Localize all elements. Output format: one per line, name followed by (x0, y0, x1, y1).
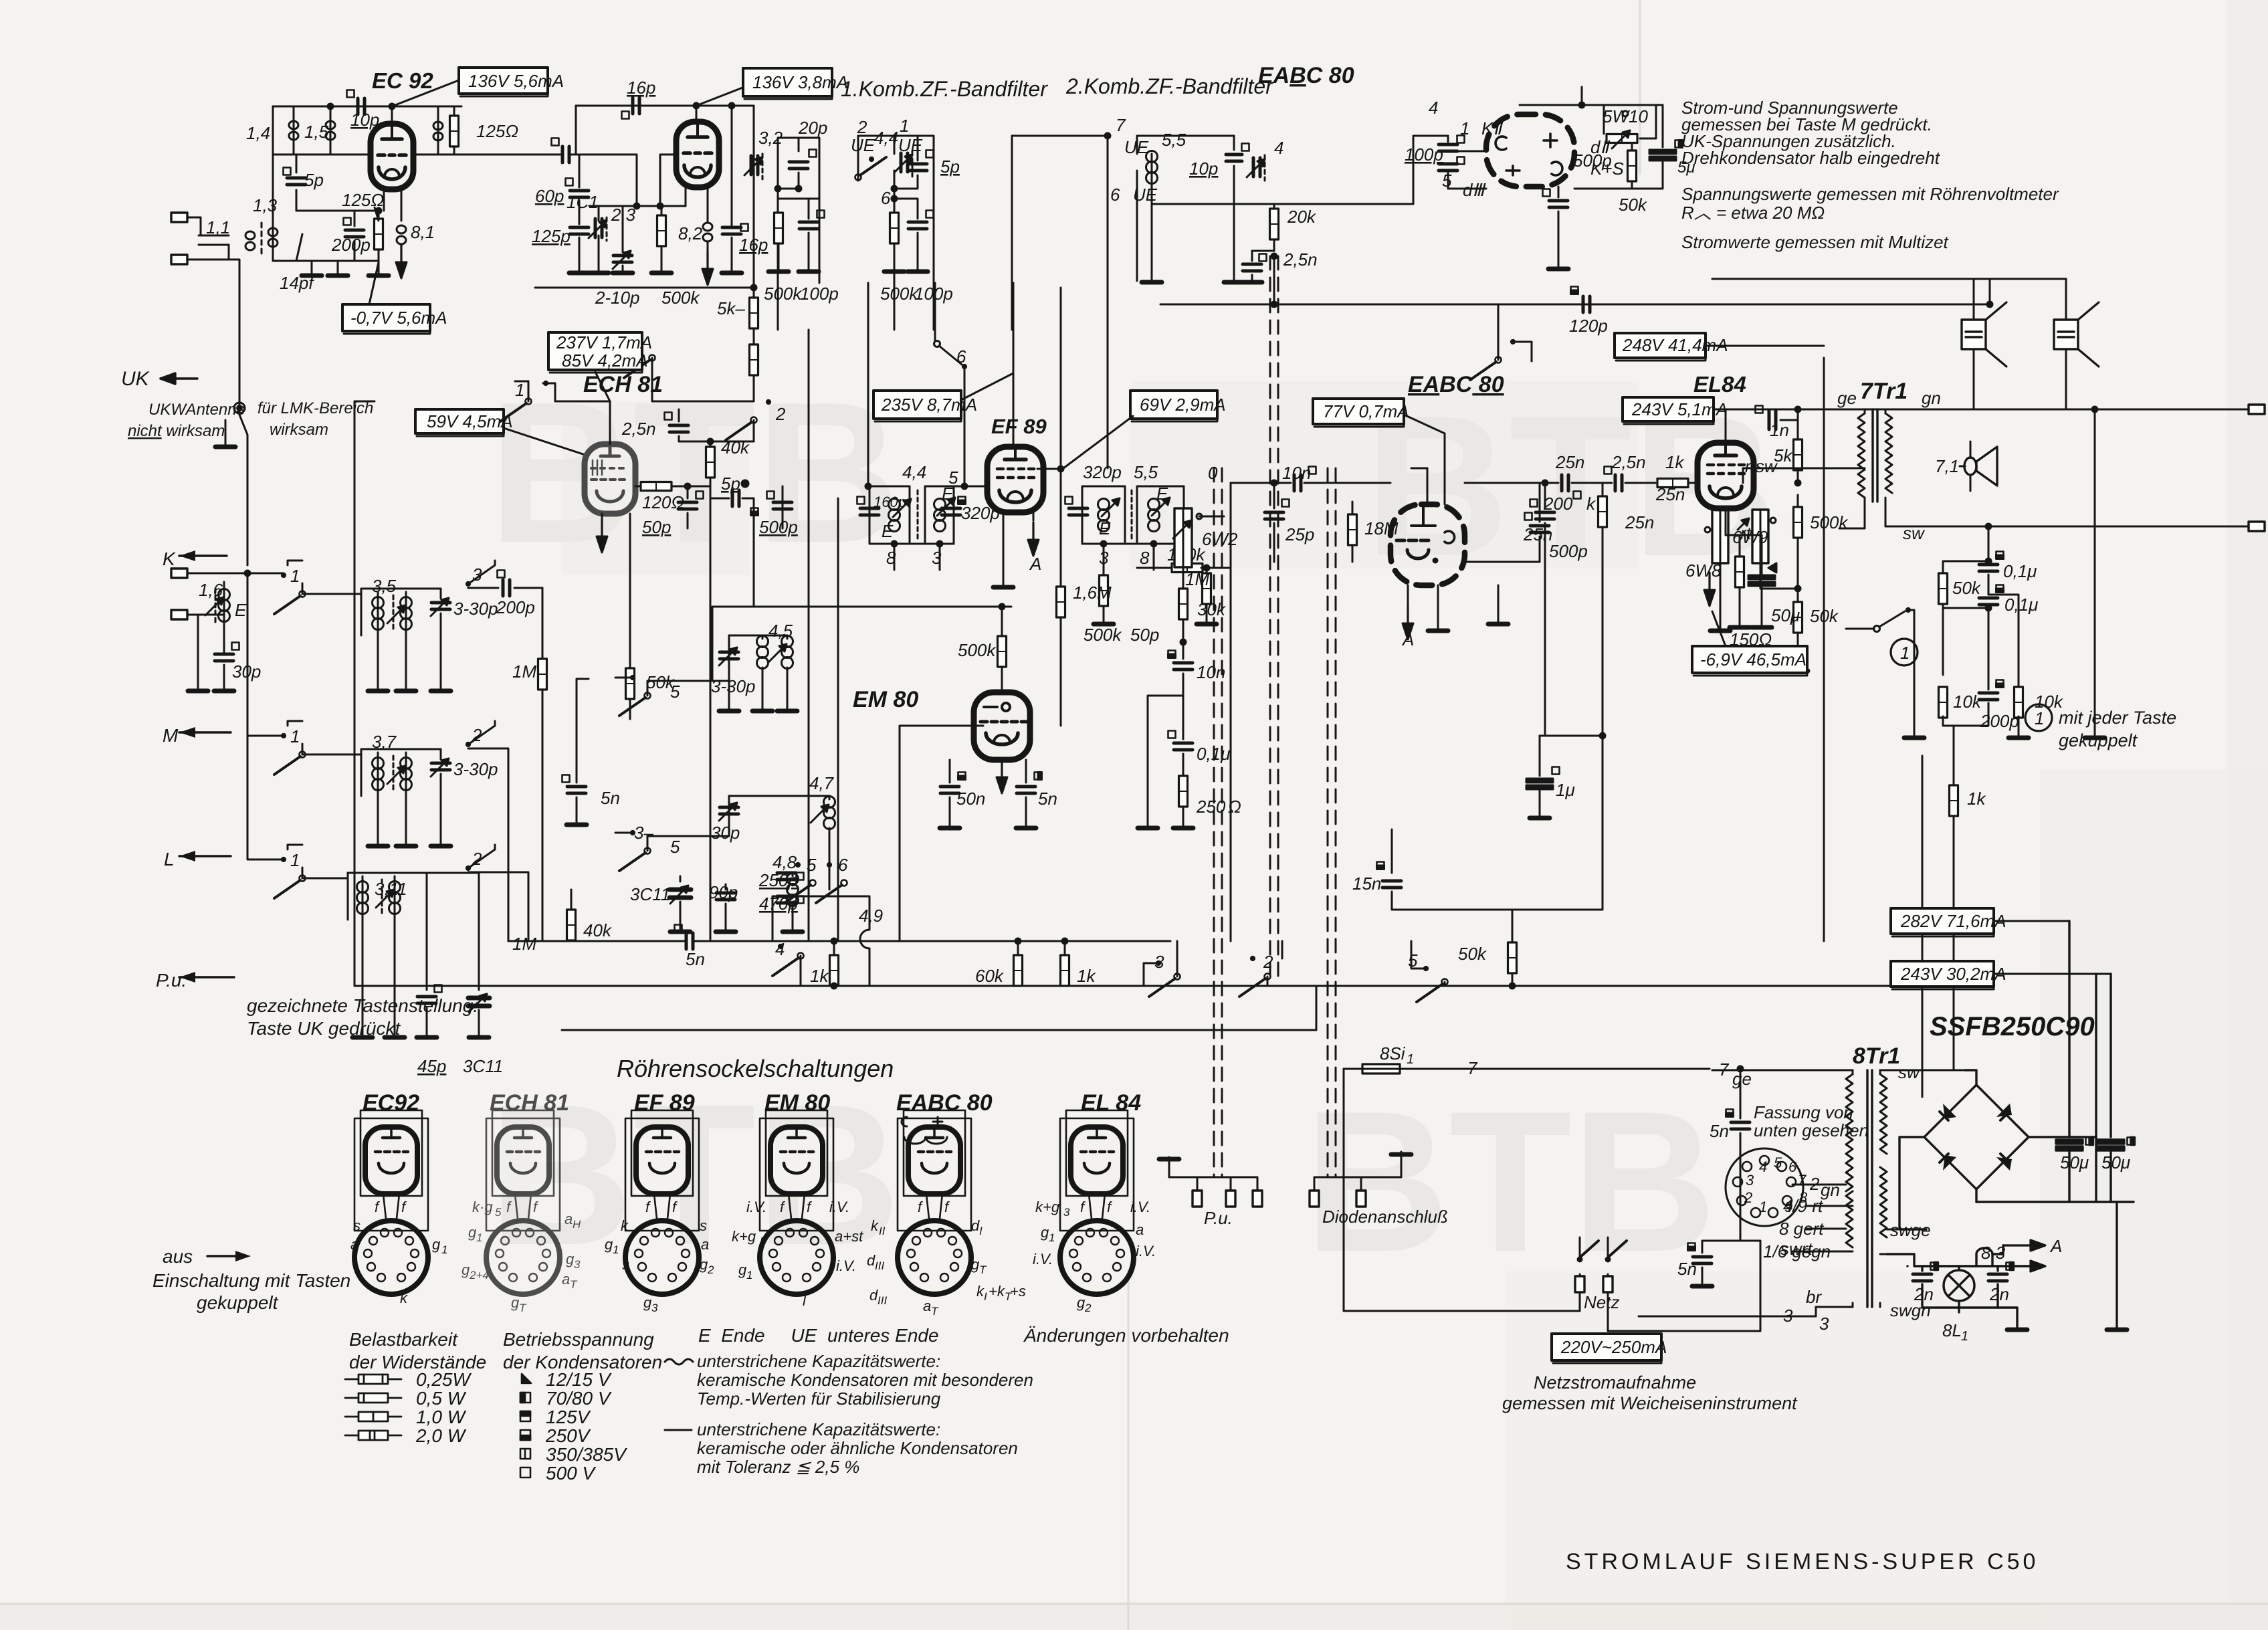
svg-text:H: H (573, 1218, 581, 1231)
svg-text:1: 1 (2035, 708, 2044, 728)
svg-text:II: II (879, 1225, 886, 1237)
svg-text:A: A (1029, 554, 1041, 574)
svg-text:10p: 10p (1189, 159, 1218, 179)
svg-text:50k: 50k (1458, 944, 1487, 964)
svg-text:br: br (1806, 1287, 1822, 1307)
svg-text:16p: 16p (627, 78, 655, 98)
svg-text:125V: 125V (546, 1407, 591, 1427)
svg-text:50p: 50p (1130, 625, 1159, 645)
svg-text:EC92: EC92 (363, 1090, 419, 1116)
svg-text:25n: 25n (1655, 484, 1685, 504)
svg-text:4,9: 4,9 (859, 906, 883, 926)
svg-text:50μ: 50μ (2101, 1152, 2130, 1173)
cathode ground (1437, 585, 1439, 629)
svg-text:1: 1 (746, 1269, 752, 1282)
svg-text:ge: ge (1732, 1069, 1752, 1089)
svg-text:UKWAntenne: UKWAntenne (148, 401, 245, 419)
svg-text:3: 3 (932, 548, 942, 568)
svg-text:a: a (1136, 1221, 1144, 1238)
svg-text:s: s (622, 1256, 629, 1273)
svg-text:1k: 1k (1077, 966, 1096, 986)
svg-text:1: 1 (1900, 643, 1910, 663)
pin leads 3 and 8 sec (1104, 544, 1154, 570)
resistor 5k no.1 (750, 288, 758, 346)
switch 3 contact and 200p (466, 561, 542, 596)
speaker 7,1 (1960, 441, 1997, 491)
grid leak 50k (626, 514, 635, 719)
svg-text:E: E (235, 600, 247, 620)
anode lead tube2 (696, 106, 698, 121)
vertical to 5k chain (753, 106, 755, 288)
resistor 40k lower (567, 890, 576, 941)
svg-text:5p: 5p (304, 170, 324, 190)
anode arrow EABC (1403, 606, 1413, 639)
svg-text:500k: 500k (958, 640, 997, 660)
capacitor 5p (284, 155, 306, 211)
svg-text:10p: 10p (350, 110, 379, 130)
svg-text:P.u.: P.u. (1204, 1208, 1233, 1228)
svg-text:0,25W: 0,25W (416, 1369, 472, 1390)
svg-text:rtsw: rtsw (1745, 456, 1778, 476)
svg-text:Einschaltung mit Tasten: Einschaltung mit Tasten (152, 1270, 350, 1291)
box 235V 8,7mA (873, 391, 977, 421)
shielded pair to P.u. (1214, 468, 1222, 1177)
svg-text:125p: 125p (532, 226, 571, 246)
svg-text:5: 5 (495, 1206, 502, 1219)
box 59V 4,5mA (415, 409, 513, 436)
svg-text:1: 1 (1407, 1052, 1414, 1067)
cap 45p (348, 873, 442, 1035)
svg-text:3,7: 3,7 (372, 732, 397, 752)
svg-text:1k: 1k (1967, 789, 1986, 809)
svg-text:1n: 1n (1770, 420, 1789, 440)
svg-text:50k: 50k (1619, 195, 1648, 215)
svg-text:6: 6 (1110, 185, 1120, 205)
svg-text:8: 8 (886, 548, 896, 568)
svg-text:gezeichnete Tastenstellung:: gezeichnete Tastenstellung: (247, 995, 478, 1016)
wire 200p link (418, 154, 560, 156)
cap 16p shunt (722, 106, 748, 273)
pot 6W9 6W8 (1705, 510, 1798, 631)
cap 320p sec (1065, 497, 1088, 516)
svg-text:3-30p: 3-30p (711, 676, 756, 696)
svg-text:20k: 20k (1287, 207, 1317, 227)
svg-text:5: 5 (1442, 171, 1452, 191)
potentiometer 6W2 (1173, 508, 1224, 582)
transformer 1,1 (199, 217, 262, 260)
svg-text:BTB: BTB (1304, 1069, 1717, 1294)
resistor 20k (1270, 204, 1279, 251)
cluster 4,7 (615, 796, 835, 890)
svg-text:77V 0,7mA: 77V 0,7mA (1323, 401, 1409, 421)
resistor 1k right (1061, 938, 1069, 986)
capacitor 200p series (552, 138, 570, 163)
svg-text:Netzstromaufnahme: Netzstromaufnahme (1534, 1372, 1696, 1393)
leader lines from boxes (504, 372, 610, 462)
svg-text:250: 250 (1196, 797, 1226, 817)
svg-text:-0,7V 5,6mA: -0,7V 5,6mA (350, 308, 447, 328)
svg-text:3–: 3– (634, 823, 653, 843)
circled 1 note (2025, 704, 2176, 750)
Diodenanschluss terminal row (1310, 1152, 1411, 1207)
svg-text:50n: 50n (956, 789, 985, 809)
svg-text:20p: 20p (798, 118, 827, 138)
svg-text:70/80 V: 70/80 V (546, 1388, 612, 1409)
svg-text:2.Komb.ZF.-Bandfilter: 2.Komb.ZF.-Bandfilter (1065, 74, 1273, 98)
svg-text:unten gesehen: unten gesehen (1754, 1120, 1869, 1140)
svg-text:320p: 320p (961, 503, 1000, 523)
grid wire (954, 486, 994, 488)
svg-text:7: 7 (1719, 1059, 1730, 1080)
cap 30p (214, 643, 239, 692)
svg-text:ECH 81: ECH 81 (490, 1090, 569, 1116)
switch 1 M band (247, 573, 306, 775)
fuse 8Si1 (1344, 1064, 1710, 1074)
shielded pair to Dioden (1328, 468, 1336, 1177)
ground left of 250 (1148, 696, 1183, 826)
wire anode (391, 106, 393, 124)
svg-text:200p: 200p (1980, 711, 2019, 731)
top right rail (1716, 409, 2261, 411)
resistor 125 ohm cathode (375, 208, 383, 261)
svg-text:25p: 25p (1285, 524, 1314, 544)
Fassung (1754, 1102, 1869, 1140)
box 220V~250mA (1552, 1334, 1667, 1363)
svg-text:5k–: 5k– (717, 298, 745, 318)
gezeichnete Tastenstellung (247, 995, 478, 1039)
grid right to g2 node (1037, 468, 1061, 470)
svg-text:3: 3 (1154, 952, 1164, 972)
svg-text:1M: 1M (1185, 569, 1209, 589)
svg-text:8,2: 8,2 (678, 223, 703, 243)
svg-text:136V 3,8mA: 136V 3,8mA (752, 72, 848, 92)
svg-text:0,1μ: 0,1μ (2003, 561, 2037, 581)
grid chain 25n 2,5n 1k (1465, 482, 1558, 484)
cap 10n series (1231, 467, 1390, 942)
UKW antenna labels (128, 399, 373, 440)
svg-text:unterstrichene Kapazitätswerte: unterstrichene Kapazitätswerte: (697, 1351, 940, 1371)
filter box 1 (768, 138, 825, 330)
svg-text:5: 5 (1774, 1154, 1782, 1171)
anode bus EC92 no.1 (273, 106, 461, 108)
svg-text:gekuppelt: gekuppelt (2059, 730, 2138, 750)
svg-text:8,3: 8,3 (1981, 1243, 2006, 1263)
svg-text:5n: 5n (1710, 1121, 1729, 1141)
svg-text:aus: aus (163, 1246, 193, 1267)
svg-text:7: 7 (1798, 1172, 1807, 1189)
svg-text:6: 6 (956, 346, 966, 367)
resistor 120ohm (635, 482, 710, 491)
svg-text:10k: 10k (1953, 692, 1982, 712)
svg-text:k+g: k+g (732, 1228, 756, 1245)
svg-text:100p: 100p (800, 284, 839, 304)
svg-text:50k: 50k (1952, 578, 1982, 598)
resistor 30k (1179, 582, 1188, 645)
resistor load legend (345, 1374, 401, 1440)
trimmer pair 3,2 (744, 154, 762, 179)
svg-text:R︿ = etwa 20 MΩ: R︿ = etwa 20 MΩ (1681, 203, 1825, 223)
svg-text:7: 7 (1467, 1058, 1478, 1078)
svg-text:3: 3 (1819, 1314, 1829, 1334)
resistor 50k (1574, 144, 1637, 189)
EM80 leads (900, 726, 983, 941)
svg-text:2-10p: 2-10p (595, 288, 640, 308)
svg-text:1.Komb.ZF.-Bandfilter: 1.Komb.ZF.-Bandfilter (841, 77, 1048, 101)
svg-text:I: I (984, 1290, 987, 1303)
svg-text:8: 8 (1799, 1189, 1808, 1206)
cap 1n (1756, 406, 1801, 430)
svg-text:5n: 5n (1677, 1259, 1697, 1279)
svg-text:M: M (163, 725, 179, 746)
ground stub antenna (215, 420, 235, 447)
svg-text:i.V.: i.V. (1033, 1251, 1053, 1267)
switch 3 low (1144, 941, 1180, 997)
svg-text:2,5n: 2,5n (621, 419, 656, 439)
svg-text:136V 5,6mA: 136V 5,6mA (468, 71, 564, 91)
svg-text:8Si: 8Si (1380, 1043, 1406, 1063)
svg-text:a: a (701, 1236, 709, 1253)
svg-text:6W2: 6W2 (1202, 529, 1238, 549)
svg-text:5,5: 5,5 (1162, 130, 1187, 150)
tube ECH81 (585, 444, 635, 514)
svg-text:T: T (979, 1263, 987, 1276)
svg-text:3-30p: 3-30p (453, 599, 498, 619)
svg-text:4,5: 4,5 (768, 621, 793, 641)
svg-text:nicht wirksam: nicht wirksam (128, 422, 225, 440)
svg-text:4: 4 (775, 939, 785, 959)
svg-text:gn: gn (1821, 1180, 1840, 1200)
arrow down cathode (396, 245, 407, 278)
box -0,7V 5,6mA (342, 304, 447, 334)
switch 1 K band (247, 561, 306, 614)
svg-text:T: T (570, 1278, 578, 1291)
svg-text:s: s (353, 1217, 360, 1234)
cathode lead (685, 188, 687, 206)
electrolytic 50u no.1 (2056, 1138, 2093, 1203)
svg-text:5p: 5p (940, 157, 960, 177)
svg-text:500k: 500k (661, 288, 700, 308)
svg-text:50μ: 50μ (2060, 1152, 2089, 1173)
svg-text:1: 1 (290, 850, 300, 870)
B+ top bus (1520, 87, 1663, 105)
svg-text:EL84: EL84 (1693, 372, 1746, 397)
RC network right (1979, 524, 2004, 716)
grid bus (273, 154, 461, 156)
tube EABC80 dashed (1486, 114, 1574, 187)
svg-text:3: 3 (472, 565, 482, 585)
svg-text:T: T (519, 1302, 527, 1314)
svg-text:320p: 320p (1083, 462, 1122, 482)
svg-text:T: T (931, 1305, 939, 1318)
svg-text:i.V.: i.V. (1130, 1199, 1150, 1215)
filter box 2 (884, 136, 934, 330)
svg-text:40k: 40k (721, 437, 750, 457)
netz plugs (1575, 1237, 1627, 1292)
trimmer 2-10p (613, 206, 633, 273)
svg-text:500k: 500k (764, 284, 803, 304)
svg-text:3C11: 3C11 (630, 884, 670, 904)
bottom right rail (1885, 526, 2261, 528)
svg-text:125Ω: 125Ω (342, 190, 384, 210)
svg-text:235V 8,7mA: 235V 8,7mA (881, 395, 977, 415)
svg-text:3,5: 3,5 (372, 576, 397, 596)
svg-text:1: 1 (290, 566, 300, 586)
svg-text:0,5 W: 0,5 W (416, 1388, 467, 1409)
svg-text:Temp.-Werten für Stabilisierun: Temp.-Werten für Stabilisierung (697, 1389, 941, 1409)
switch 2 contact L (466, 845, 528, 941)
svg-text:EF 89: EF 89 (991, 415, 1047, 438)
svg-text:keramische oder ähnliche Konde: keramische oder ähnliche Kondensatoren (697, 1438, 1018, 1458)
switch 4 coil 4,9 (772, 896, 869, 986)
svg-text:4,4: 4,4 (874, 128, 898, 148)
svg-text:K: K (163, 548, 176, 569)
svg-text:a+st: a+st (835, 1228, 863, 1245)
transformer taps (1639, 1070, 1853, 1316)
switch 1 L band (247, 736, 306, 898)
svg-text:200p: 200p (331, 235, 371, 255)
antenna jack terminals (171, 213, 231, 264)
wire filter drop lines (809, 330, 838, 941)
bus 1540 (562, 1029, 1316, 1031)
svg-text:4,7: 4,7 (809, 773, 835, 793)
svg-text:2+4: 2+4 (469, 1269, 489, 1282)
svg-text:4: 4 (1274, 138, 1283, 158)
bus 1407 (508, 940, 1170, 942)
socket EL84 (1033, 1090, 1156, 1314)
box 69V 2,9mA (1130, 391, 1226, 421)
grid feed wires (1427, 433, 1445, 504)
svg-text:8: 8 (1140, 548, 1150, 568)
svg-text:a: a (562, 1271, 570, 1288)
svg-text:EM 80: EM 80 (764, 1090, 830, 1116)
svg-text:0,1μ: 0,1μ (2004, 595, 2038, 615)
svg-text:12/15 V: 12/15 V (546, 1369, 612, 1390)
svg-text:7: 7 (1116, 115, 1126, 135)
electrolytic 50u (1748, 535, 1776, 627)
svg-text:25n: 25n (1555, 452, 1584, 472)
svg-text:2: 2 (1744, 1189, 1752, 1206)
svg-text:3: 3 (1783, 1306, 1793, 1326)
coil 5,5 (1146, 151, 1158, 282)
svg-text:125Ω: 125Ω (476, 121, 518, 141)
svg-text:UK: UK (121, 368, 150, 390)
grid lead (660, 155, 676, 206)
cap 5n lower (1688, 1164, 1761, 1286)
tube EABC80 dashed (1390, 504, 1465, 585)
bridge rectifier SSFB250C90 (1887, 921, 2135, 1330)
svg-text:gemessen mit Weicheiseninstrum: gemessen mit Weicheiseninstrument (1502, 1393, 1798, 1413)
box 243V 30,2mA (1891, 961, 2006, 989)
cluster 4,5 (615, 635, 797, 716)
svg-text:1,5: 1,5 (304, 122, 329, 142)
capacitor voltage legend (520, 1374, 531, 1478)
resistor 125 ohm (450, 106, 459, 155)
K terminals (171, 569, 187, 578)
svg-text:UE: UE (1133, 185, 1158, 205)
resistor 1,6M (1057, 469, 1065, 726)
svg-text:2,5n: 2,5n (1611, 452, 1646, 472)
caps 100p pair (1439, 136, 1486, 189)
diagonal leader to 136V box (392, 80, 459, 106)
coil 8,1 (397, 189, 406, 258)
wire KII to tube (1448, 150, 1486, 152)
svg-text:Drehkondensator halb eingedreh: Drehkondensator halb eingedreht (1681, 148, 1941, 168)
coil 1,3 on frame (268, 155, 278, 261)
svg-text:120Ω: 120Ω (642, 492, 684, 512)
box 282V 71,6mA (1891, 908, 2006, 936)
svg-text:3: 3 (1099, 548, 1109, 568)
L terminal arrow (179, 851, 231, 861)
mid bus (712, 607, 1011, 681)
frame bottom wire (273, 260, 379, 262)
svg-text:L: L (164, 849, 175, 870)
svg-text:EF 89: EF 89 (634, 1090, 695, 1116)
svg-text:1: 1 (1759, 1199, 1767, 1215)
svg-text:3: 3 (574, 1258, 581, 1271)
resistor 50k right (1788, 589, 1808, 671)
node row wire (296, 210, 379, 212)
caps 60p 125p left (566, 155, 590, 273)
svg-text:1C1: 1C1 (566, 192, 599, 212)
cap 10n lower (1168, 642, 1193, 696)
cathode lead (383, 189, 385, 211)
svg-text:ge: ge (1837, 388, 1857, 408)
potentiometer 5W10 (1604, 105, 1656, 148)
svg-text:50p: 50p (642, 517, 671, 537)
cap 160p (857, 497, 880, 516)
svg-text:10n: 10n (1282, 463, 1311, 483)
svg-text:7Tr1: 7Tr1 (1860, 379, 1908, 404)
cap 50p (678, 484, 704, 528)
verticals from filter 1 (868, 283, 935, 486)
svg-text:swrt: swrt (1780, 1239, 1813, 1259)
cap 500p shunt (1465, 483, 1549, 562)
svg-text:2n: 2n (1914, 1284, 1934, 1304)
terminals right rail (2249, 405, 2265, 414)
svg-text:5p: 5p (721, 474, 740, 494)
P.u. terminal row (1159, 1157, 1262, 1207)
svg-text:k: k (621, 1217, 629, 1234)
svg-text:i.V.: i.V. (836, 1257, 856, 1274)
diagonal leader to 136V 3,8mA box (696, 86, 748, 106)
svg-text:Taste UK gedrückt: Taste UK gedrückt (247, 1018, 401, 1039)
L band coils 3,11 (302, 873, 401, 920)
svg-text:a: a (564, 1211, 573, 1227)
svg-text:1M: 1M (512, 934, 536, 954)
svg-text:3: 3 (1063, 1206, 1070, 1219)
svg-text:6W8: 6W8 (1685, 561, 1722, 581)
svg-text:1: 1 (1460, 118, 1469, 138)
svg-text:gn: gn (1922, 388, 1941, 408)
svg-text:237V 1,7mA: 237V 1,7mA (556, 332, 652, 352)
leader 69V box (1063, 416, 1133, 468)
svg-text:4,8: 4,8 (772, 852, 797, 872)
svg-text:4: 4 (1429, 98, 1438, 118)
svg-text:1,3: 1,3 (253, 195, 278, 215)
svg-text:220V~250mA: 220V~250mA (1560, 1337, 1667, 1357)
box 243V 5,1mA (1623, 397, 1728, 424)
g2 vertical (1060, 288, 1062, 469)
svg-text:100p: 100p (1405, 144, 1443, 165)
svg-text:+s: +s (1010, 1283, 1026, 1300)
svg-text:5W10: 5W10 (1603, 106, 1648, 126)
resistor 1k tail (1950, 726, 1958, 1069)
svg-text:EM 80: EM 80 (853, 687, 918, 712)
svg-text:5n: 5n (1038, 789, 1057, 809)
svg-text:243V 30,2mA: 243V 30,2mA (1900, 964, 2006, 984)
svg-text:60p: 60p (535, 186, 564, 206)
svg-text:UE: UE (898, 135, 923, 155)
